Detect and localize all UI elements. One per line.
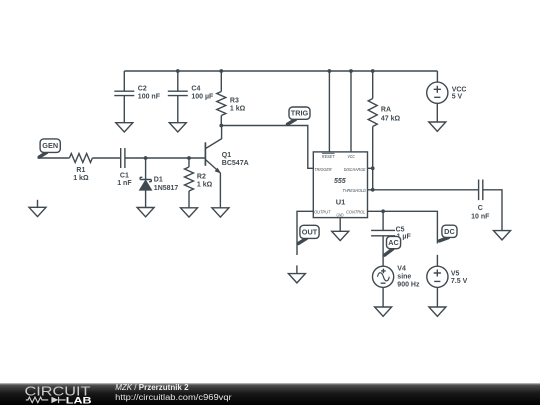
- svg-text:http://circuitlab.com/c969vqr: http://circuitlab.com/c969vqr: [115, 393, 232, 402]
- diode D1 1N5817 schottky: [140, 177, 179, 193]
- svg-text:V5: V5: [451, 270, 460, 277]
- wire Q1 emitter drop: [219, 173, 221, 208]
- wire TRIG row: [221, 126, 313, 169]
- svg-text:100 µF: 100 µF: [191, 93, 214, 100]
- resistor R3: [217, 92, 246, 116]
- svg-text:VCC: VCC: [347, 154, 355, 159]
- wire V4 ground drop: [382, 287, 384, 307]
- node RESET/rail junction: [328, 69, 332, 73]
- resistor RA: [368, 99, 400, 127]
- node RA/rail junction: [371, 69, 375, 73]
- voltage source V5 7.5V: [427, 266, 468, 287]
- svg-text:100 nF: 100 nF: [138, 93, 161, 100]
- svg-text:1 nF: 1 nF: [117, 180, 132, 187]
- wire V5 ground drop: [436, 287, 438, 307]
- svg-text:LAB: LAB: [66, 396, 92, 405]
- svg-text:C1: C1: [120, 173, 129, 180]
- wire C4 branch: [177, 71, 179, 123]
- svg-text:VCC: VCC: [452, 86, 467, 93]
- svg-text:D1: D1: [154, 177, 163, 184]
- flag OUT: [298, 225, 319, 243]
- svg-text:OUT: OUT: [302, 227, 318, 236]
- node R3/TRIG junction: [219, 124, 223, 128]
- ground below C: [494, 231, 511, 240]
- svg-text:V4: V4: [397, 266, 406, 273]
- wire C2 branch: [123, 71, 125, 123]
- node R3/rail junction: [219, 69, 223, 73]
- svg-text:1 kΩ: 1 kΩ: [230, 106, 246, 113]
- svg-text:R2: R2: [197, 174, 206, 181]
- ground below R2: [181, 208, 198, 217]
- svg-text:RA: RA: [381, 106, 391, 113]
- wire VCC source ground drop: [436, 103, 438, 122]
- ground below V4: [375, 307, 392, 316]
- svg-text:5 V: 5 V: [452, 94, 463, 101]
- svg-text:1 kΩ: 1 kΩ: [73, 175, 89, 182]
- svg-text:47 kΩ: 47 kΩ: [381, 115, 401, 122]
- node VCCpin/rail junction: [349, 69, 353, 73]
- wire D1 branch: [145, 158, 147, 208]
- svg-text:MZK / Przerzutnik 2: MZK / Przerzutnik 2: [115, 383, 189, 392]
- wire R3 branch: [220, 71, 222, 126]
- ground below 555 GND: [332, 231, 349, 240]
- svg-text:R1: R1: [76, 167, 85, 174]
- svg-text:R3: R3: [230, 98, 239, 105]
- node THRESHOLD junction: [371, 188, 375, 192]
- wire OUTPUT: [297, 211, 313, 255]
- flag GEN: [39, 139, 60, 157]
- node CONTROL/C5 junction: [381, 209, 385, 213]
- wire DISCHARGE stub: [368, 167, 373, 169]
- svg-text:GEN: GEN: [42, 141, 58, 150]
- wire VCC source drop: [436, 71, 438, 82]
- pin label RESET: [322, 152, 335, 154]
- svg-text:TRIG: TRIG: [291, 109, 309, 118]
- resistor R2: [185, 167, 213, 191]
- node C4/rail junction: [176, 69, 180, 73]
- ground below Q1 emitter: [212, 208, 229, 217]
- logo resistor-diode doodle: [26, 397, 66, 403]
- svg-text:10 nF: 10 nF: [471, 213, 490, 220]
- svg-text:AC: AC: [388, 238, 399, 247]
- wire THRESHOLD row: [368, 190, 503, 231]
- svg-text:Q1: Q1: [222, 152, 231, 159]
- resistor R1: [69, 154, 92, 183]
- svg-text:7.5 V: 7.5 V: [451, 278, 468, 285]
- wire R2 branch: [188, 158, 190, 208]
- flag AC: [385, 236, 401, 255]
- svg-text:1N5817: 1N5817: [154, 185, 179, 192]
- capacitor C5: [371, 227, 411, 241]
- svg-text:900 Hz: 900 Hz: [397, 282, 420, 289]
- capacitor C4: [168, 85, 214, 100]
- footer bar: [0, 383, 540, 405]
- capacitor C1: [117, 148, 132, 187]
- svg-text:C: C: [478, 205, 483, 212]
- svg-text:RESET: RESET: [322, 154, 336, 159]
- svg-text:1 kΩ: 1 kΩ: [197, 182, 213, 189]
- voltage source VCC 5V: [427, 82, 467, 103]
- flag DC: [439, 225, 457, 241]
- capacitor C 10nF: [471, 180, 490, 221]
- svg-text:THRESHOLD: THRESHOLD: [343, 188, 367, 193]
- ground below C2: [116, 123, 133, 132]
- ground below GEN: [29, 200, 46, 217]
- svg-text:U1: U1: [336, 198, 346, 207]
- svg-text:BC547A: BC547A: [222, 160, 249, 167]
- wire 555 GND drop: [339, 218, 341, 232]
- svg-text:DISCHARGE: DISCHARGE: [344, 167, 366, 172]
- ground below D1: [137, 208, 154, 217]
- ground below OUT: [288, 265, 305, 283]
- node DISCHARGE junction: [371, 166, 375, 170]
- node R2/base junction: [187, 156, 191, 160]
- voltage source V4 sine 900Hz: [373, 266, 420, 289]
- op-amp U1 555 timer box: [313, 152, 367, 218]
- capacitor C2: [114, 85, 160, 100]
- wire top VCC rail: [124, 70, 437, 72]
- ground below V5: [429, 307, 446, 316]
- wire RESET branch: [328, 71, 330, 152]
- svg-text:C2: C2: [138, 85, 147, 92]
- svg-text:OUTPUT: OUTPUT: [314, 209, 331, 214]
- ground below C4: [169, 123, 186, 132]
- svg-text:sine: sine: [397, 274, 411, 281]
- wire VCC pin branch: [350, 71, 352, 152]
- flag TRIG: [288, 107, 311, 124]
- wire RA branch: [372, 71, 374, 190]
- svg-text:CONTROL: CONTROL: [346, 209, 366, 214]
- wire C5 branch: [382, 211, 384, 266]
- svg-text:TRIGGER: TRIGGER: [314, 167, 332, 172]
- svg-text:555: 555: [334, 178, 346, 185]
- svg-text:GND: GND: [337, 212, 344, 217]
- wire CONTROL row: [368, 211, 438, 266]
- wire GEN input row: [38, 157, 205, 159]
- transistor Q1 BC547A: [205, 126, 248, 174]
- svg-text:DC: DC: [444, 227, 455, 236]
- node C1/D1 junction: [144, 156, 148, 160]
- svg-text:C4: C4: [191, 85, 200, 92]
- ground below VCC source: [429, 122, 446, 131]
